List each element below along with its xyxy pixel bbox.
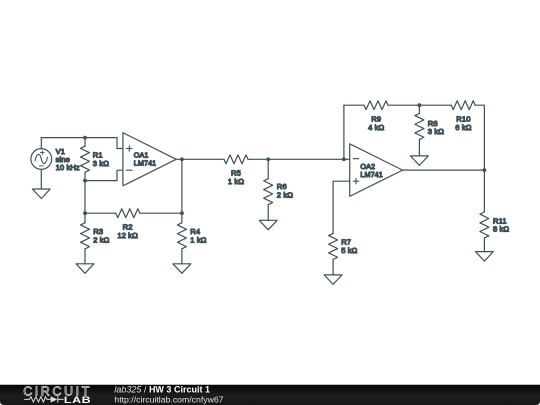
node: R2/R4 junction <box>180 211 184 215</box>
label R1 3 kOhm <box>93 151 109 168</box>
wire: R10 to right rail down to output <box>475 105 484 170</box>
label R6 2 kOhm <box>277 182 293 199</box>
node: OA1 output <box>180 157 184 161</box>
node: R1 bottom <box>83 179 87 183</box>
wire: feedback up from - input <box>343 105 345 159</box>
op-amp OA2 LM741 <box>350 144 403 197</box>
wire: OA2 output to right rail <box>403 169 485 171</box>
svg-text:6 kΩ: 6 kΩ <box>455 123 471 132</box>
label R11 8 kOhm <box>493 216 509 233</box>
wire: V1 top to OA1 + input <box>41 138 123 149</box>
label R10 6 kOhm <box>455 115 471 132</box>
resistor R8 3 kOhm vertical <box>415 105 424 156</box>
label R3 2 kOhm <box>93 227 109 244</box>
label OA2 LM741 <box>360 162 382 179</box>
ground below R3 <box>76 264 94 274</box>
svg-text:2 kΩ: 2 kΩ <box>93 236 109 245</box>
node: R8/R9/R10 junction <box>418 103 422 107</box>
resistor R4 1 kOhm vertical <box>177 213 186 264</box>
ground below R4 <box>173 264 191 274</box>
label R7 5 kOhm <box>341 238 357 255</box>
svg-text:http://circuitlab.com/cnfyw67: http://circuitlab.com/cnfyw67 <box>114 394 223 404</box>
label R8 3 kOhm <box>428 119 444 136</box>
wire: OA1 output down to R4 <box>181 159 183 213</box>
ground below R6 <box>259 220 277 230</box>
CircuitLab logo: wire-resistor-diode glyph <box>24 396 64 402</box>
svg-text:LM741: LM741 <box>134 159 156 168</box>
svg-text:lab325 / HW 3 Circuit 1: lab325 / HW 3 Circuit 1 <box>114 385 210 395</box>
wire: R5 to OA2 - input <box>248 158 350 160</box>
wire: R1 bottom down to R2/R3 node <box>84 181 86 214</box>
svg-text:1 kΩ: 1 kΩ <box>228 177 244 186</box>
label OA1 LM741 <box>134 151 156 168</box>
wire: R9 to R8/R10 node <box>388 104 451 106</box>
label R5 1 kOhm <box>228 169 244 186</box>
voltage source V1 sine 10 kHz <box>31 138 52 189</box>
node: R2/R3 junction <box>83 211 87 215</box>
wire: feedback top to R9 <box>344 104 364 106</box>
node: output / R11 junction <box>483 168 487 172</box>
node: R5/R6 junction <box>266 157 270 161</box>
ground below R11 <box>476 252 494 262</box>
label V1 sine 10 kHz <box>56 147 80 172</box>
svg-text:3 kΩ: 3 kΩ <box>428 127 444 136</box>
svg-text:LM741: LM741 <box>360 170 382 179</box>
svg-text:5 kΩ: 5 kΩ <box>341 246 357 255</box>
footer bar <box>0 385 540 405</box>
ground below R8 <box>411 156 429 166</box>
resistor R11 8 kOhm vertical <box>480 170 489 252</box>
svg-text:4 kΩ: 4 kΩ <box>368 123 384 132</box>
node: R1 top <box>83 136 87 140</box>
svg-text:2 kΩ: 2 kΩ <box>277 190 293 199</box>
resistor R1 3 kOhm vertical <box>81 138 90 181</box>
resistor R10 6 kOhm horizontal <box>451 101 475 110</box>
svg-text:LAB: LAB <box>64 395 91 405</box>
resistor R3 2 kOhm vertical <box>81 213 90 264</box>
wire: OA2 + input to R7 <box>333 181 350 233</box>
ground below R7 <box>324 275 342 285</box>
resistor R9 4 kOhm horizontal <box>364 101 388 110</box>
resistor R6 2 kOhm vertical <box>264 159 273 220</box>
label R9 4 kOhm <box>368 115 384 132</box>
resistor R2 12 kOhm horizontal feedback <box>85 209 182 218</box>
svg-text:3 kΩ: 3 kΩ <box>93 159 109 168</box>
wire: OA1 output to R5 <box>176 158 224 160</box>
svg-text:10 kHz: 10 kHz <box>56 163 80 172</box>
label R4 1 kOhm <box>190 227 206 244</box>
svg-text:8 kΩ: 8 kΩ <box>493 225 509 234</box>
label R2 12 kOhm <box>117 223 138 240</box>
node: OA2 - input feedback tap <box>342 157 346 161</box>
resistor R7 5 kOhm vertical <box>329 233 338 275</box>
svg-text:1 kΩ: 1 kΩ <box>190 236 206 245</box>
ground below V1 <box>32 189 50 199</box>
op-amp OA1 LM741 <box>123 133 176 186</box>
svg-text:12 kΩ: 12 kΩ <box>117 231 138 240</box>
wire: R1 bottom to OA1 - input <box>85 170 123 180</box>
resistor R5 1 kOhm horizontal <box>224 155 248 164</box>
